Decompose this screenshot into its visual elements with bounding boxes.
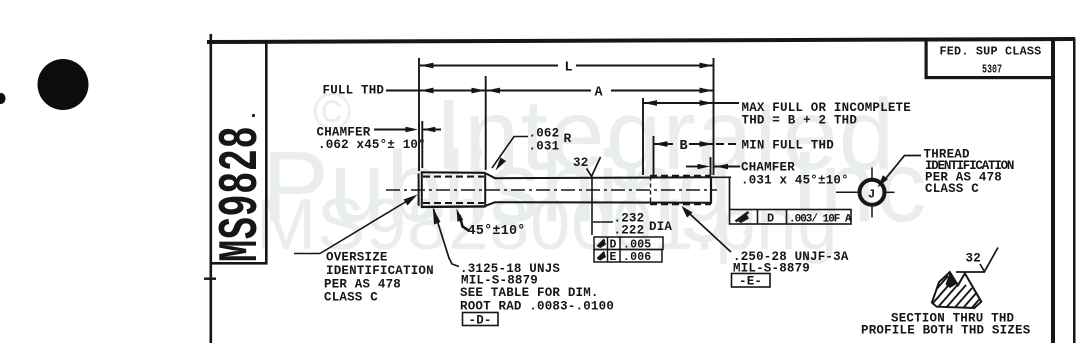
arrowhead chamfer right a	[698, 164, 711, 170]
arrowhead A right	[700, 88, 714, 94]
svg-text:.003/ 10F A: .003/ 10F A	[789, 213, 852, 225]
radius leader	[492, 137, 528, 169]
svg-text:PER AS 478: PER AS 478	[324, 278, 401, 292]
sheet right outer edge line	[1073, 38, 1076, 343]
sheet right inner border	[1051, 38, 1055, 343]
svg-text:.031 x 45°±10°: .031 x 45°±10°	[741, 174, 849, 188]
shoulder bottom	[486, 202, 495, 206]
ext line chamfer left	[421, 121, 423, 168]
svg-text:CLASS C: CLASS C	[324, 291, 378, 305]
profile top line	[956, 271, 985, 273]
datum D box	[463, 313, 499, 326]
svg-text:32: 32	[966, 252, 981, 266]
dimension line B min thd	[654, 143, 673, 145]
arrowhead full thd right	[472, 88, 486, 94]
right thread major dashed top	[650, 175, 711, 177]
svg-text:5307: 5307	[982, 63, 1002, 77]
left thread minor dashed top	[423, 176, 484, 178]
svg-text:MS9828: MS9828	[211, 126, 273, 262]
leader .3125	[434, 209, 460, 267]
svg-text:MIN FULL THD: MIN FULL THD	[742, 139, 835, 153]
svg-text:.031: .031	[529, 140, 560, 154]
svg-text:A: A	[595, 86, 604, 101]
svg-text:E: E	[610, 251, 617, 264]
arrowhead L right	[700, 63, 714, 69]
fcf box D .003/10F A	[730, 210, 852, 225]
left border tick	[204, 278, 216, 280]
svg-text:45°±10°: 45°±10°	[468, 224, 526, 239]
arrowhead chamfer right b	[716, 164, 729, 170]
svg-text:PROFILE BOTH THD SIZES: PROFILE BOTH THD SIZES	[861, 324, 1031, 338]
title block right line	[265, 42, 268, 263]
leader min full thd	[716, 143, 740, 145]
arrowhead L left	[420, 63, 434, 69]
svg-text:D: D	[767, 211, 774, 225]
thread id circle J	[860, 180, 885, 205]
sheet top border	[207, 37, 1075, 44]
svg-text:FED. SUP CLASS: FED. SUP CLASS	[940, 45, 1042, 59]
svg-text:SEE TABLE FOR DIM.: SEE TABLE FOR DIM.	[460, 286, 599, 300]
dia tick	[593, 221, 613, 223]
arrowhead B right	[700, 141, 714, 147]
arrowhead max right	[700, 100, 714, 106]
dimension line L	[420, 65, 558, 67]
svg-text:R: R	[564, 131, 572, 146]
arrowhead max left	[644, 100, 658, 106]
fed sup class box left line	[925, 41, 928, 79]
ext line full thd boundary	[485, 76, 487, 170]
ext line right thread end	[713, 58, 715, 175]
svg-text:J: J	[868, 187, 875, 201]
left end face outer	[418, 174, 420, 206]
svg-text:CLASS C: CLASS C	[925, 182, 979, 196]
chamfer dim right	[686, 166, 699, 168]
svg-text:-E-: -E-	[739, 275, 762, 289]
ext line chamfer right	[710, 157, 712, 175]
svg-text:OVERSIZE: OVERSIZE	[326, 251, 388, 265]
arrowhead A left	[487, 88, 501, 94]
svg-text:.222: .222	[614, 224, 645, 238]
fed sup class box bottom line	[925, 76, 1054, 79]
svg-text:-D-: -D-	[469, 314, 492, 328]
svg-text:DIA: DIA	[649, 220, 672, 234]
fcf leader vertical	[729, 177, 731, 210]
svg-text:L: L	[565, 61, 573, 76]
left thread minor dashed bottom	[423, 202, 484, 204]
dia ext line	[591, 177, 593, 236]
centerline	[386, 189, 717, 191]
svg-text:THD = B + 2 THD: THD = B + 2 THD	[742, 114, 858, 128]
svg-text:.062 x45°± 10°: .062 x45°± 10°	[318, 138, 426, 152]
leader oversize	[294, 253, 320, 255]
left thread bottom line	[421, 205, 486, 208]
svg-text:B: B	[680, 139, 688, 154]
leader .250-28	[684, 209, 731, 253]
arrowhead chamfer left a	[406, 127, 419, 133]
full thd leader	[386, 90, 420, 92]
ext line min thd	[653, 136, 655, 175]
svg-text:CHAMFER: CHAMFER	[741, 161, 795, 175]
sheet left border	[210, 34, 213, 343]
fcf box D .005	[594, 237, 663, 250]
left thread top line	[421, 171, 486, 174]
punch hole dot	[38, 59, 89, 110]
svg-text:32: 32	[573, 156, 588, 170]
profile peak fill	[946, 273, 957, 289]
right thread major dashed bottom	[650, 203, 711, 206]
svg-text:ROOT RAD .0083-.0100: ROOT RAD .0083-.0100	[460, 300, 614, 314]
ext line left end	[418, 58, 420, 171]
right thread start line	[650, 177, 652, 204]
ext line max thd	[642, 98, 644, 175]
svg-text:IDENTIFICATION: IDENTIFICATION	[326, 264, 434, 278]
left thread end vertical	[484, 173, 486, 207]
shank top line	[495, 176, 712, 179]
datum E box	[732, 274, 771, 288]
left end face inner	[421, 172, 423, 207]
dimension line max thd	[643, 102, 739, 104]
dimension line A and full thd	[386, 90, 591, 92]
svg-text:.006: .006	[623, 251, 651, 264]
circle crosshair	[836, 168, 895, 218]
chamfer dim left leader	[374, 129, 406, 131]
edge mark	[0, 93, 6, 104]
arrowhead B left	[654, 141, 668, 147]
top surface extension right	[711, 176, 731, 178]
right end face	[710, 176, 712, 203]
arrowhead full thd left	[420, 88, 434, 94]
stray dot	[252, 114, 255, 117]
leader 45 deg	[460, 215, 469, 231]
svg-text:FULL THD: FULL THD	[323, 84, 385, 98]
title block bottom line	[210, 262, 268, 265]
shank bottom line	[495, 201, 712, 204]
shoulder top	[486, 173, 495, 178]
fcf box E .006	[594, 250, 662, 263]
svg-text:.062: .062	[529, 127, 560, 141]
arrowhead chamfer left b	[423, 127, 436, 133]
circle leader	[880, 156, 921, 186]
